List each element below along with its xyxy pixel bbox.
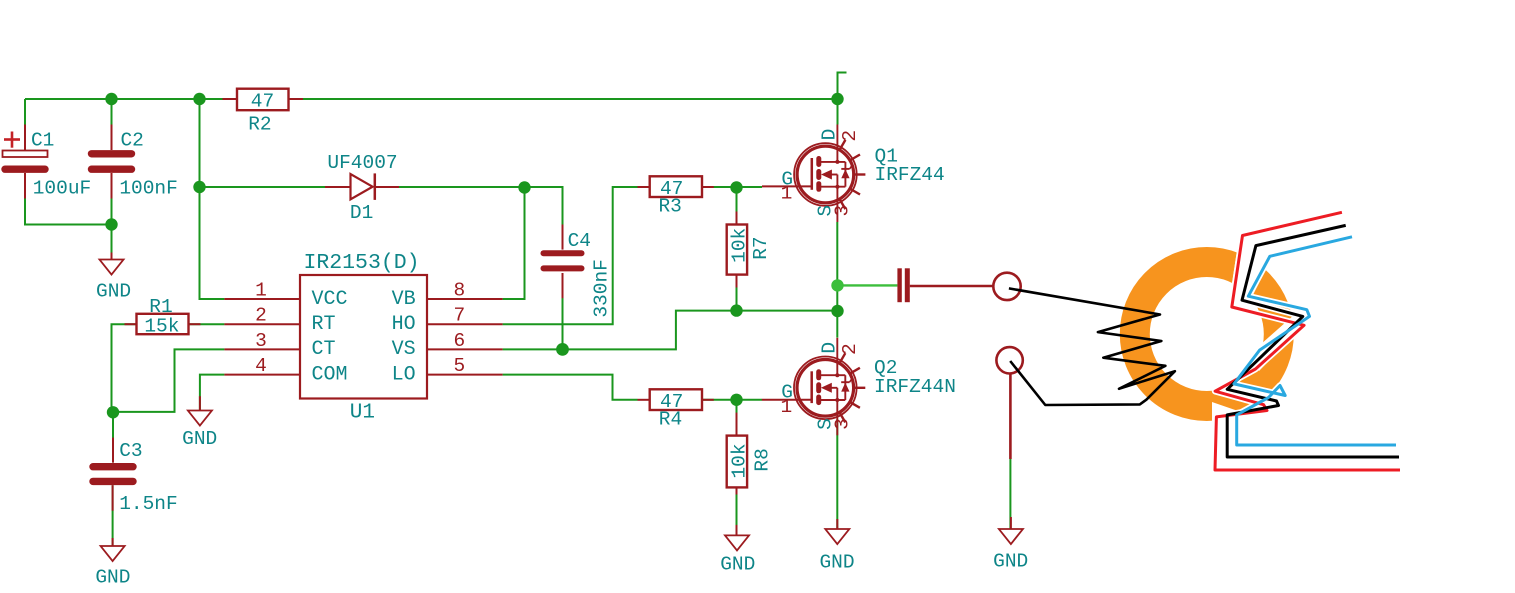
svg-text:C4: C4 xyxy=(568,230,591,252)
svg-text:GND: GND xyxy=(182,428,217,450)
svg-text:LO: LO xyxy=(392,363,416,386)
svg-text:GND: GND xyxy=(95,566,130,588)
svg-text:2: 2 xyxy=(839,130,861,142)
svg-text:3: 3 xyxy=(832,418,854,430)
svg-text:2: 2 xyxy=(255,305,267,327)
svg-text:GND: GND xyxy=(96,280,131,302)
svg-text:GND: GND xyxy=(720,553,755,575)
svg-text:47: 47 xyxy=(251,90,274,112)
svg-text:R7: R7 xyxy=(750,236,772,259)
svg-text:D: D xyxy=(818,129,840,141)
svg-text:GND: GND xyxy=(819,552,854,574)
svg-text:U1: U1 xyxy=(350,401,375,424)
svg-text:4: 4 xyxy=(255,355,267,377)
svg-text:GND: GND xyxy=(993,551,1028,573)
svg-text:R3: R3 xyxy=(658,196,681,218)
svg-text:330nF: 330nF xyxy=(591,259,613,318)
svg-text:100nF: 100nF xyxy=(119,177,178,199)
svg-text:RT: RT xyxy=(312,313,336,336)
svg-text:IRFZ44: IRFZ44 xyxy=(875,164,945,186)
svg-text:C3: C3 xyxy=(119,440,142,462)
svg-text:R2: R2 xyxy=(248,114,271,136)
svg-text:D: D xyxy=(818,342,840,354)
svg-text:10k: 10k xyxy=(728,228,750,263)
svg-text:CT: CT xyxy=(312,338,336,361)
svg-text:UF4007: UF4007 xyxy=(327,152,397,174)
svg-text:7: 7 xyxy=(454,305,466,327)
svg-text:100uF: 100uF xyxy=(33,177,92,199)
svg-text:1: 1 xyxy=(255,279,267,301)
svg-text:10k: 10k xyxy=(728,443,750,478)
svg-text:R1: R1 xyxy=(149,296,172,318)
svg-text:2: 2 xyxy=(839,343,861,355)
svg-text:5: 5 xyxy=(454,355,466,377)
svg-text:R4: R4 xyxy=(659,409,682,431)
svg-text:COM: COM xyxy=(312,363,348,386)
svg-text:8: 8 xyxy=(454,279,466,301)
svg-text:R8: R8 xyxy=(751,448,773,471)
svg-text:1.5nF: 1.5nF xyxy=(119,493,178,515)
svg-text:VCC: VCC xyxy=(312,288,348,311)
svg-text:IR2153(D): IR2153(D) xyxy=(303,251,419,275)
svg-text:IRFZ44N: IRFZ44N xyxy=(874,376,956,398)
svg-text:15k: 15k xyxy=(144,316,179,338)
svg-text:6: 6 xyxy=(454,330,466,352)
svg-text:VB: VB xyxy=(392,288,416,311)
svg-text:VS: VS xyxy=(392,338,416,361)
svg-text:3: 3 xyxy=(832,205,854,217)
svg-text:HO: HO xyxy=(392,313,416,336)
svg-text:C2: C2 xyxy=(120,130,143,152)
svg-text:D1: D1 xyxy=(350,202,373,224)
svg-text:3: 3 xyxy=(255,330,267,352)
svg-text:C1: C1 xyxy=(31,130,54,152)
